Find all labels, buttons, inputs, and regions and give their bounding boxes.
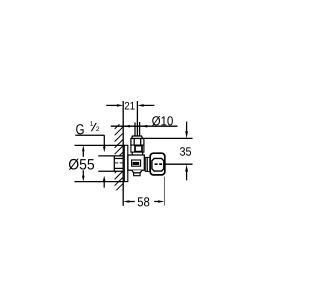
Ø10 right arrow: [141, 125, 148, 128]
compression nut band: [131, 139, 144, 146]
dimension Ø55 bottom extension line: [75, 181, 125, 183]
inlet shank through wall: top line: [98, 155, 123, 157]
label Ø55: [69, 159, 94, 170]
nut facet lines: [133, 139, 135, 146]
Ø55 up arrow: [82, 151, 84, 157]
dimension Ø10 leader line: [111, 125, 178, 127]
inlet shank divider: [113, 156, 115, 171]
body bottom taper: [132, 170, 142, 173]
dimension Ø55 top extension line: [75, 144, 125, 146]
label 21: [125, 102, 135, 110]
21 right arrow: [137, 104, 143, 107]
dimension 21: [106, 101, 154, 136]
dimension 58 right extension line: [163, 177, 165, 206]
valve body main block: [128, 155, 144, 170]
label 1 (fraction numerator): [90, 121, 93, 125]
35 bottom arrow (up): [186, 171, 188, 180]
wall hatching: [115, 121, 123, 199]
label 35: [180, 147, 191, 156]
Ø10 left arrow: [124, 125, 130, 128]
lower leader arrow near escutcheon (up): [103, 181, 105, 188]
fraction slash: [91, 123, 97, 131]
body bottom cap: [134, 173, 141, 176]
dimension 35 top extension line: [142, 137, 193, 139]
inlet axis dashes: [115, 162, 118, 164]
label 58: [138, 197, 150, 206]
nut lower inner box: [135, 146, 142, 152]
handle inner face: [152, 158, 164, 171]
G 1/2 leader vertical: [103, 135, 105, 147]
21 left arrow: [117, 104, 123, 107]
compression nut top cap: [132, 136, 143, 139]
text labels (Liberation Sans outlines): [69, 102, 191, 207]
nut lower band: [131, 145, 144, 152]
G 1/2 leader arrowhead (down): [103, 147, 106, 153]
58 dimension line left tail: [128, 201, 135, 203]
handle screw slot dashes: [155, 163, 158, 165]
35 top arrow (down): [186, 122, 188, 132]
handle outer ring: [150, 153, 165, 175]
neck between nut and body: [131, 152, 133, 155]
21 dimension line right tail: [143, 104, 154, 106]
label 2 (fraction denominator): [96, 126, 99, 131]
wall face line / 21 left extension / 58 left extension: [122, 101, 124, 206]
inlet inner top line: [114, 158, 123, 160]
21 right extension line: [136, 101, 138, 136]
label G: [76, 124, 83, 134]
Ø55 down arrow: [82, 170, 84, 176]
label Ø10: [152, 116, 173, 126]
21 dimension line left tail: [106, 104, 117, 106]
body inner detail box: [132, 160, 141, 166]
technical drawing: angle valve side view with dimensions: [0, 0, 250, 300]
escutcheon Ø55 (edge view): [124, 145, 128, 181]
inlet shank bottom line: [98, 170, 123, 172]
outlet pipe Ø10: [134, 123, 136, 137]
58 right arrow: [158, 200, 164, 203]
inlet inner bottom line: [114, 167, 123, 169]
bonnet between body and handle: [145, 157, 150, 171]
58 left arrow: [123, 200, 129, 203]
58 dimension line right tail: [154, 201, 160, 203]
dimension 35 bottom extension line: [163, 163, 193, 165]
body inner dark bar: [133, 162, 140, 165]
G 1/2 label underline: [75, 134, 104, 136]
